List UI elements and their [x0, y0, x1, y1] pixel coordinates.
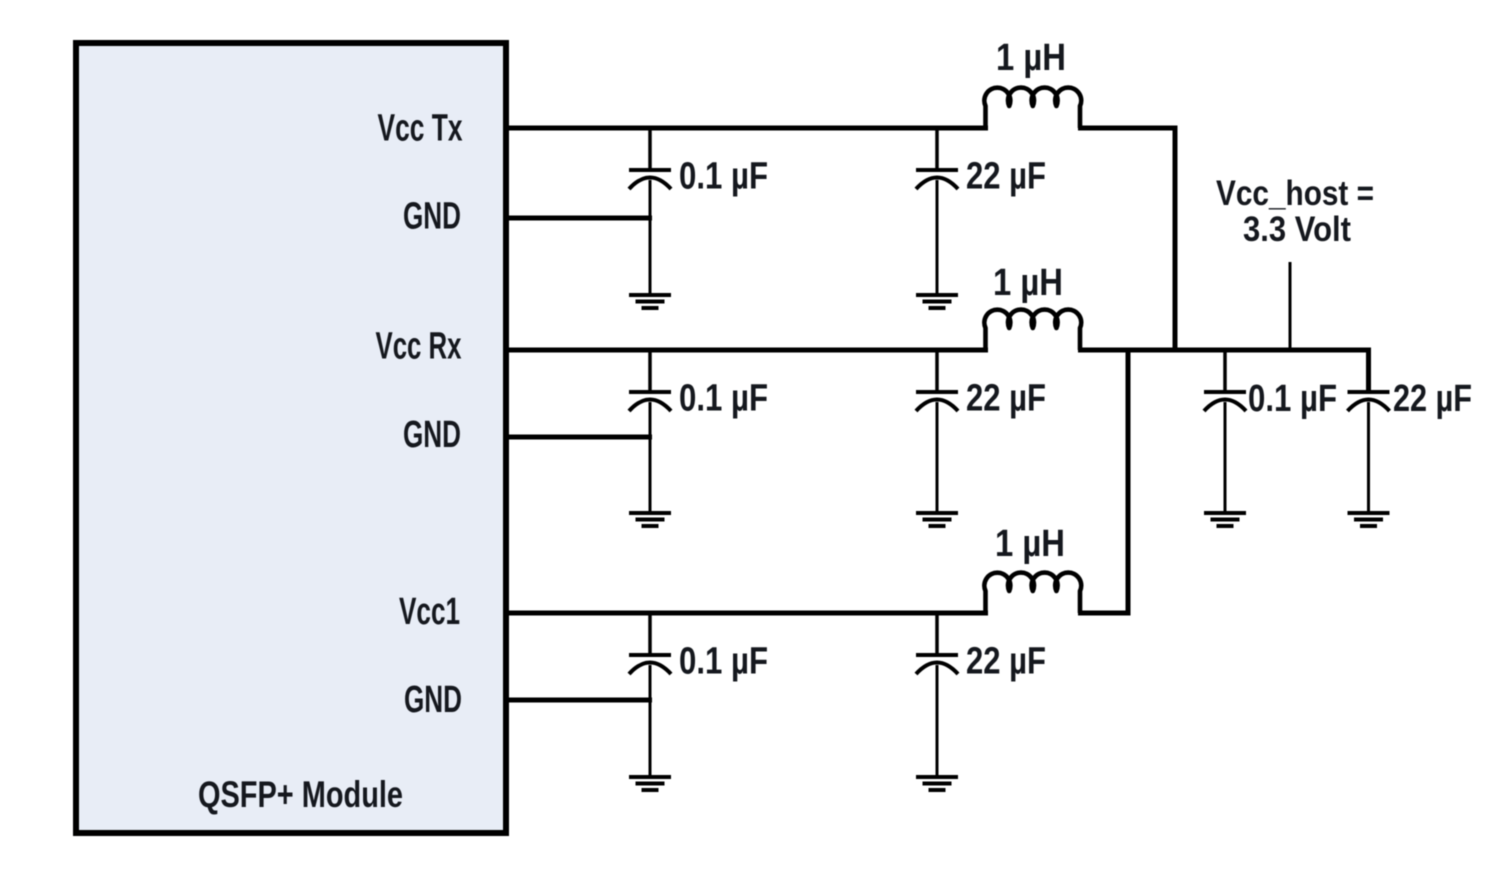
- capacitor C5 0.1uF (Vcc1): [629, 613, 671, 775]
- capacitor C6 22uF (Vcc1): [916, 613, 958, 775]
- wire Vcc1 rail (box to inductor L3): [503, 611, 988, 616]
- capacitor C4 22uF (Vcc Rx): [916, 350, 958, 511]
- svg-text:22 µF: 22 µF: [1393, 378, 1472, 420]
- svg-text:22 µF: 22 µF: [966, 378, 1046, 420]
- wire vertical Vcc Tx down to Vcc_host node: [1173, 126, 1178, 353]
- svg-text:Vcc1: Vcc1: [399, 591, 460, 633]
- wire GND stub (Rx): [503, 435, 652, 440]
- ground (C2): [916, 295, 958, 308]
- node Vcc_host stem: [1289, 262, 1292, 352]
- svg-text:Vcc_host =: Vcc_host =: [1216, 174, 1374, 213]
- wire vertical Vcc1 up to Vcc_host node: [1126, 348, 1131, 616]
- svg-text:0.1 µF: 0.1 µF: [679, 378, 768, 420]
- svg-text:22 µF: 22 µF: [966, 641, 1046, 683]
- inductor L3 1uH: [984, 573, 1081, 613]
- wire GND stub (Vcc1): [503, 698, 652, 703]
- ground (C3): [629, 513, 671, 526]
- inductor L2 1uH: [984, 310, 1081, 350]
- capacitor C2 22uF (Vcc Tx): [916, 128, 958, 293]
- ground (C7): [1204, 513, 1246, 526]
- wire Vcc Tx rail (box to inductor L1): [503, 126, 988, 131]
- svg-text:1 µH: 1 µH: [993, 262, 1063, 304]
- svg-text:Vcc Tx: Vcc Tx: [378, 108, 463, 150]
- svg-text:QSFP+ Module: QSFP+ Module: [198, 774, 403, 815]
- svg-text:0.1 µF: 0.1 µF: [679, 156, 768, 198]
- ground (C8): [1348, 513, 1390, 526]
- QSFP+ module body U1: [76, 43, 506, 833]
- svg-text:0.1 µF: 0.1 µF: [1248, 378, 1337, 420]
- ground (C5): [629, 777, 671, 790]
- wire GND stub (Tx): [503, 216, 652, 221]
- wire Vcc Tx rail (L1 to corner): [1078, 126, 1178, 131]
- capacitor C1 0.1uF (Vcc Tx): [629, 128, 671, 293]
- svg-text:GND: GND: [403, 414, 461, 456]
- svg-text:GND: GND: [403, 196, 461, 238]
- capacitor C8 22uF (Vcc_host): [1348, 348, 1390, 511]
- svg-text:Vcc Rx: Vcc Rx: [376, 326, 462, 368]
- ground (C6): [916, 777, 958, 790]
- wire Vcc_host rail (L2 to right end): [1078, 348, 1371, 353]
- capacitor C7 0.1uF (Vcc_host): [1204, 350, 1246, 511]
- wire Vcc Rx rail (box to inductor L2): [503, 348, 988, 353]
- svg-text:1 µH: 1 µH: [995, 523, 1065, 565]
- inductor L1 1uH: [984, 88, 1081, 128]
- svg-text:0.1 µF: 0.1 µF: [679, 641, 768, 683]
- svg-text:GND: GND: [404, 679, 462, 721]
- svg-text:1 µH: 1 µH: [996, 37, 1066, 79]
- wire Vcc1 rail (L3 to corner): [1078, 611, 1131, 616]
- svg-text:22 µF: 22 µF: [966, 156, 1046, 198]
- svg-text:3.3 Volt: 3.3 Volt: [1243, 210, 1351, 249]
- ground (C1): [629, 295, 671, 308]
- capacitor C3 0.1uF (Vcc Rx): [629, 350, 671, 511]
- ground (C4): [916, 513, 958, 526]
